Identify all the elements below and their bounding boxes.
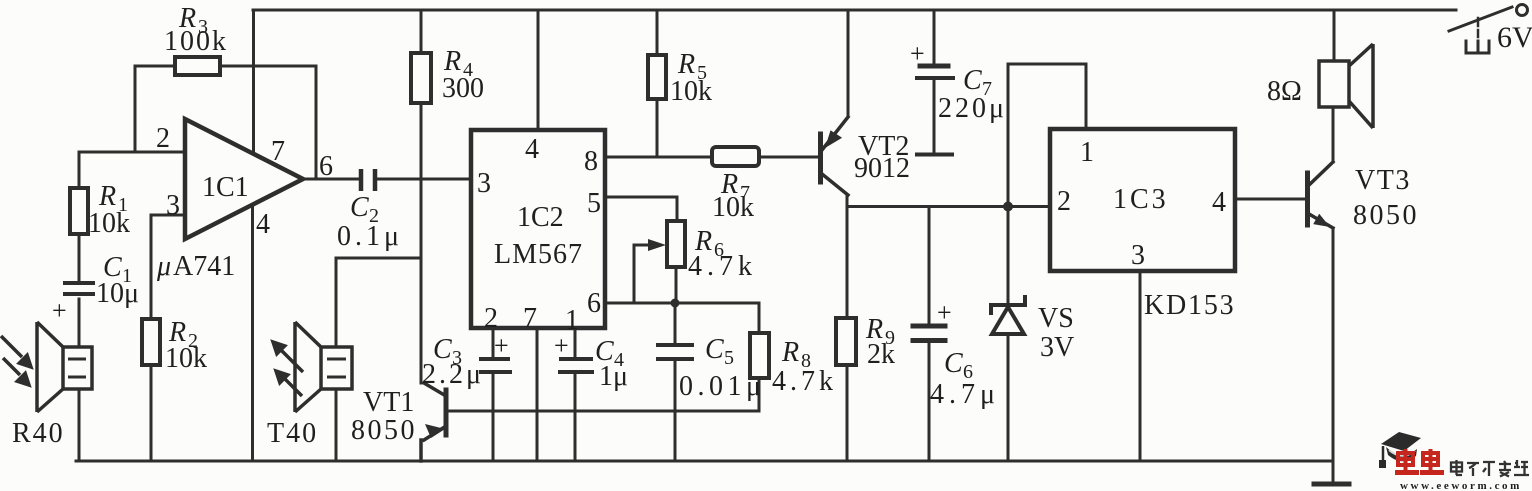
svg-text:4.7k: 4.7k xyxy=(688,251,757,282)
svg-text:3: 3 xyxy=(166,190,180,221)
svg-text:2k: 2k xyxy=(867,339,895,370)
svg-text:A741: A741 xyxy=(173,251,235,282)
svg-text:C: C xyxy=(963,65,982,96)
svg-text:220μ: 220μ xyxy=(938,93,1007,124)
svg-text:4: 4 xyxy=(1212,187,1226,218)
svg-text:1C1: 1C1 xyxy=(202,172,249,203)
svg-text:R: R xyxy=(781,337,799,368)
svg-text:1: 1 xyxy=(1080,137,1094,168)
svg-text:8050: 8050 xyxy=(1353,200,1419,231)
svg-text:+: + xyxy=(554,331,569,360)
svg-text:www.eeworm.com: www.eeworm.com xyxy=(1400,480,1522,491)
svg-text:10k: 10k xyxy=(670,76,712,107)
svg-text:VT3: VT3 xyxy=(1355,165,1411,196)
svg-text:6V: 6V xyxy=(1497,21,1532,54)
svg-text:6: 6 xyxy=(319,151,333,182)
svg-text:7: 7 xyxy=(523,303,537,334)
svg-text:LM567: LM567 xyxy=(494,239,583,270)
svg-text:μ: μ xyxy=(156,251,171,282)
svg-text:4.7μ: 4.7μ xyxy=(930,379,1000,410)
svg-text:8Ω: 8Ω xyxy=(1267,76,1302,107)
svg-text:300: 300 xyxy=(442,73,484,104)
svg-text:C: C xyxy=(705,334,724,365)
svg-text:C: C xyxy=(350,192,369,223)
svg-text:+: + xyxy=(910,39,925,68)
svg-text:8: 8 xyxy=(584,146,598,177)
svg-text:10k: 10k xyxy=(165,343,207,374)
svg-text:VT1: VT1 xyxy=(363,387,414,418)
svg-text:3V: 3V xyxy=(1040,332,1074,363)
svg-text:5: 5 xyxy=(724,347,734,369)
svg-text:8050: 8050 xyxy=(351,415,417,446)
svg-text:10μ: 10μ xyxy=(96,278,139,309)
svg-text:2: 2 xyxy=(156,123,170,154)
svg-text:3: 3 xyxy=(477,168,491,199)
svg-text:2: 2 xyxy=(1057,186,1071,217)
svg-text:T40: T40 xyxy=(267,418,318,449)
svg-text:100k: 100k xyxy=(164,26,228,57)
svg-text:10k: 10k xyxy=(88,208,130,239)
svg-text:KD153: KD153 xyxy=(1144,290,1235,321)
svg-text:10k: 10k xyxy=(712,192,754,223)
svg-text:1C3: 1C3 xyxy=(1113,184,1169,215)
svg-text:VS: VS xyxy=(1038,303,1074,334)
svg-text:4.7k: 4.7k xyxy=(772,366,837,397)
svg-text:+: + xyxy=(937,298,952,327)
svg-text:C: C xyxy=(944,348,963,379)
svg-text:2: 2 xyxy=(484,303,498,334)
svg-text:+: + xyxy=(494,331,509,360)
svg-text:7: 7 xyxy=(271,136,285,167)
svg-text:4: 4 xyxy=(256,209,270,240)
svg-text:0.01μ: 0.01μ xyxy=(679,371,766,402)
svg-text:9012: 9012 xyxy=(854,153,910,184)
svg-text:1μ: 1μ xyxy=(599,361,628,392)
svg-text:6: 6 xyxy=(587,288,601,319)
svg-text:R40: R40 xyxy=(12,418,65,449)
svg-text:5: 5 xyxy=(587,188,601,219)
svg-text:2.2μ: 2.2μ xyxy=(422,359,484,390)
svg-text:1C2: 1C2 xyxy=(517,202,564,233)
svg-text:0.1μ: 0.1μ xyxy=(337,221,403,252)
svg-text:4: 4 xyxy=(525,134,539,165)
svg-text:+: + xyxy=(52,296,67,325)
svg-text:3: 3 xyxy=(1131,240,1145,271)
